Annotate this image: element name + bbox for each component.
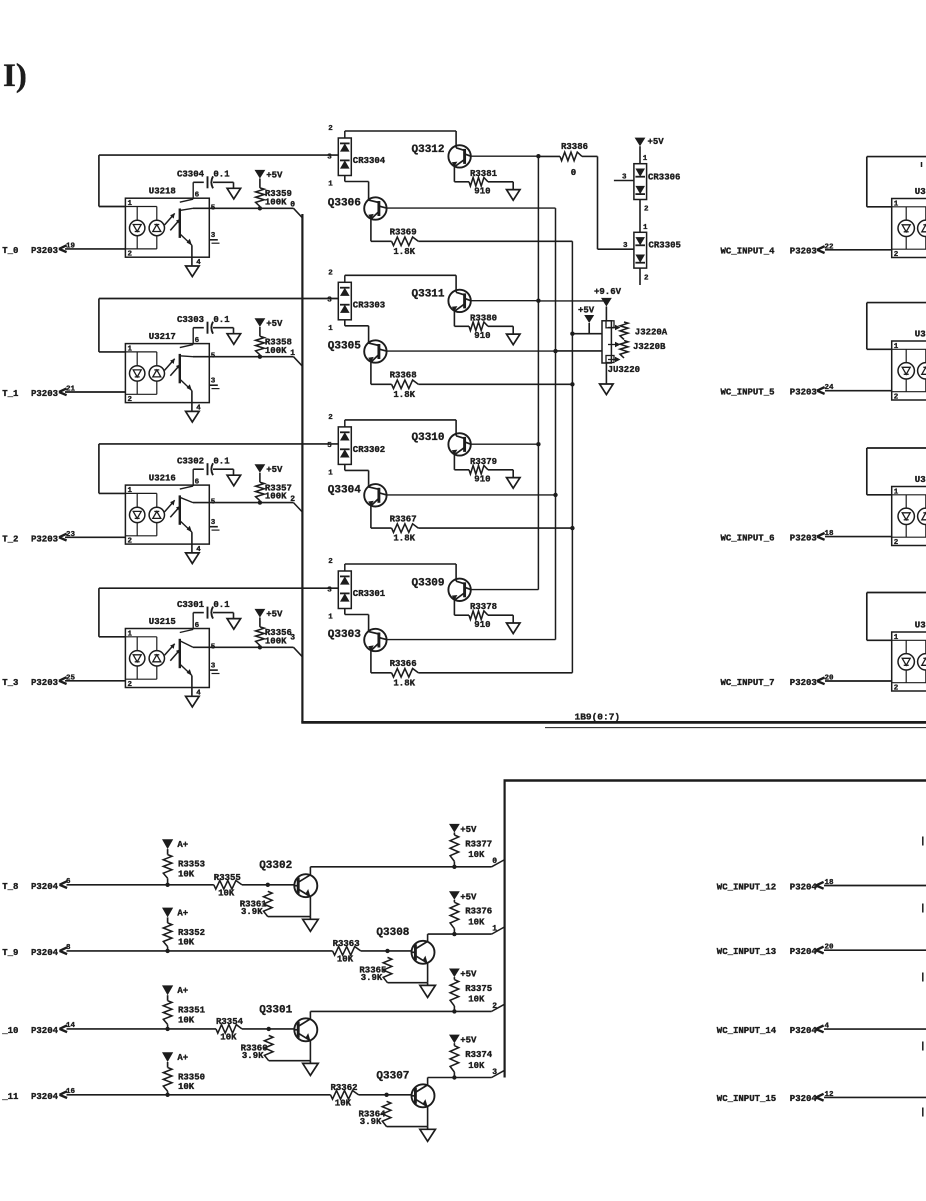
svg-text:2: 2 (328, 558, 333, 566)
svg-text:U3217: U3217 (149, 332, 176, 342)
svg-text:1.8K: 1.8K (393, 534, 415, 544)
svg-text:10K: 10K (178, 1082, 195, 1092)
svg-text:P3204: P3204 (31, 948, 59, 958)
svg-text:P3203: P3203 (31, 534, 58, 544)
svg-text:18: 18 (825, 530, 835, 538)
svg-text:910: 910 (474, 331, 490, 341)
svg-text:4: 4 (196, 259, 201, 267)
svg-text:P3204: P3204 (31, 1092, 59, 1102)
svg-text:10K: 10K (468, 995, 485, 1005)
svg-text:+5V: +5V (460, 970, 477, 980)
svg-text:CR3306: CR3306 (648, 173, 680, 183)
svg-text:Q3301: Q3301 (259, 1004, 292, 1016)
svg-text:+5V: +5V (266, 319, 283, 329)
svg-text:R3378: R3378 (470, 602, 497, 612)
svg-text:C3303: C3303 (177, 315, 204, 325)
svg-text:Q3310: Q3310 (412, 432, 445, 444)
svg-text:3: 3 (623, 242, 628, 250)
svg-text:P3203: P3203 (790, 678, 817, 688)
svg-text:3: 3 (327, 297, 332, 305)
svg-text:U3216: U3216 (149, 474, 176, 484)
svg-text:J3220B: J3220B (633, 342, 666, 352)
svg-text:10K: 10K (218, 889, 235, 899)
svg-text:25: 25 (66, 674, 76, 682)
svg-text:R3379: R3379 (470, 457, 497, 467)
svg-text:R3377: R3377 (465, 839, 492, 849)
svg-text:WC_INPUT_7: WC_INPUT_7 (721, 678, 775, 688)
svg-text:1: 1 (328, 325, 333, 333)
svg-text:1: 1 (328, 469, 333, 477)
svg-text:23: 23 (66, 531, 76, 539)
svg-text:0.1: 0.1 (213, 457, 230, 467)
svg-text:U32: U32 (915, 330, 926, 340)
svg-text:Q3305: Q3305 (328, 341, 361, 353)
svg-text:R3366: R3366 (390, 659, 417, 669)
svg-text:R3380: R3380 (470, 313, 497, 323)
svg-text:WC_INPUT_14: WC_INPUT_14 (717, 1026, 777, 1036)
svg-text:T_3: T_3 (2, 678, 18, 688)
svg-text:T_8: T_8 (2, 882, 18, 892)
svg-text:2: 2 (128, 681, 133, 689)
svg-text:WC_INPUT_6: WC_INPUT_6 (721, 533, 775, 543)
svg-text:6: 6 (195, 622, 200, 630)
svg-text:19: 19 (66, 242, 76, 250)
svg-text:T_1: T_1 (2, 389, 19, 399)
svg-text:14: 14 (66, 1022, 76, 1030)
svg-text:24: 24 (825, 384, 835, 392)
svg-text:P3204: P3204 (790, 947, 818, 957)
svg-text:10K: 10K (178, 1015, 195, 1025)
svg-text:P3204: P3204 (790, 1026, 818, 1036)
svg-text:10K: 10K (178, 869, 195, 879)
svg-text:P3203: P3203 (790, 533, 817, 543)
svg-text:CR3304: CR3304 (353, 156, 386, 166)
svg-text:WC_INPUT_5: WC_INPUT_5 (721, 388, 775, 398)
svg-text:R3386: R3386 (561, 142, 588, 152)
svg-text:P3203: P3203 (31, 678, 58, 688)
svg-text:6: 6 (195, 337, 200, 345)
svg-text:2: 2 (328, 414, 333, 422)
svg-text:10K: 10K (468, 850, 485, 860)
svg-text:910: 910 (474, 475, 490, 485)
svg-text:1: 1 (643, 155, 648, 163)
svg-text:3.9K: 3.9K (361, 973, 383, 983)
svg-text:10K: 10K (220, 1033, 237, 1043)
svg-text:R3362: R3362 (331, 1083, 358, 1093)
svg-text:5: 5 (327, 442, 332, 450)
svg-text:6: 6 (195, 479, 200, 487)
svg-text:0: 0 (492, 857, 497, 866)
svg-text:R3354: R3354 (216, 1017, 244, 1027)
svg-text:P3203: P3203 (790, 388, 817, 398)
svg-text:1.8K: 1.8K (393, 247, 415, 257)
svg-text:A+: A+ (177, 1053, 188, 1063)
svg-text:A+: A+ (177, 908, 188, 918)
svg-text:R3355: R3355 (214, 873, 241, 883)
svg-text:10K: 10K (337, 955, 354, 965)
svg-text:4: 4 (196, 690, 201, 698)
svg-text:CR3301: CR3301 (353, 589, 386, 599)
svg-text:100K: 100K (265, 346, 287, 356)
svg-text:3.9K: 3.9K (360, 1117, 382, 1127)
svg-text:3: 3 (211, 232, 216, 240)
svg-text:2: 2 (894, 685, 899, 693)
svg-text:0.1: 0.1 (213, 315, 230, 325)
svg-text:10K: 10K (468, 1061, 485, 1071)
svg-text:0.1: 0.1 (213, 170, 230, 180)
svg-text:6: 6 (66, 878, 71, 886)
svg-text:Q3304: Q3304 (328, 484, 361, 496)
svg-text:3.9K: 3.9K (242, 1051, 264, 1061)
svg-text:P3203: P3203 (31, 389, 58, 399)
svg-text:+5V: +5V (266, 171, 283, 181)
svg-text:2: 2 (128, 396, 133, 404)
svg-text:U3215: U3215 (149, 617, 176, 627)
svg-text:R3381: R3381 (470, 169, 498, 179)
svg-text:P3204: P3204 (31, 882, 59, 892)
svg-text:C3301: C3301 (177, 600, 205, 610)
svg-text:2: 2 (290, 495, 295, 504)
svg-text:P3203: P3203 (31, 246, 58, 256)
svg-text:20: 20 (825, 944, 835, 952)
svg-text:2: 2 (128, 251, 133, 259)
svg-text:+5V: +5V (460, 1036, 477, 1046)
svg-text:Q3308: Q3308 (376, 927, 409, 939)
svg-text:0: 0 (571, 168, 576, 178)
svg-text:1: 1 (290, 349, 295, 358)
svg-text:2: 2 (128, 538, 133, 546)
svg-text:3: 3 (327, 153, 332, 161)
svg-text:3.9K: 3.9K (241, 907, 263, 917)
svg-text:T_0: T_0 (2, 246, 18, 256)
svg-text:+5V: +5V (648, 137, 665, 147)
svg-text:2: 2 (328, 125, 333, 133)
svg-text:P3204: P3204 (790, 882, 818, 892)
svg-text:R3350: R3350 (178, 1073, 205, 1083)
svg-text:_10: _10 (1, 1026, 18, 1036)
svg-text:Q3303: Q3303 (328, 629, 361, 641)
svg-text:3: 3 (211, 663, 216, 671)
svg-text:R3376: R3376 (465, 907, 492, 917)
svg-text:T_9: T_9 (2, 948, 18, 958)
svg-text:R3367: R3367 (390, 515, 417, 525)
svg-text:18: 18 (825, 879, 835, 887)
svg-text:C3304: C3304 (177, 170, 205, 180)
svg-text:Q3309: Q3309 (412, 577, 445, 589)
svg-text:U32: U32 (915, 475, 926, 485)
svg-text:Q3306: Q3306 (328, 198, 361, 210)
svg-text:WC_INPUT_4: WC_INPUT_4 (721, 247, 776, 257)
svg-text:+5V: +5V (266, 465, 283, 475)
svg-text:A+: A+ (177, 986, 188, 996)
svg-text:2: 2 (894, 394, 899, 402)
svg-text:2: 2 (644, 206, 649, 214)
svg-text:1: 1 (328, 181, 333, 189)
svg-text:2: 2 (894, 251, 899, 259)
svg-text:0: 0 (290, 201, 295, 210)
svg-text:910: 910 (474, 187, 490, 197)
svg-text:2: 2 (644, 275, 649, 283)
svg-text:A+: A+ (177, 840, 188, 850)
svg-text:R3368: R3368 (390, 371, 417, 381)
svg-text:910: 910 (474, 620, 490, 630)
svg-text:R3351: R3351 (178, 1006, 206, 1016)
svg-text:U3218: U3218 (149, 187, 176, 197)
svg-text:_11: _11 (1, 1092, 19, 1102)
svg-text:2: 2 (492, 1002, 497, 1011)
svg-text:R3353: R3353 (178, 860, 205, 870)
svg-text:CR3305: CR3305 (649, 241, 681, 251)
svg-text:R3375: R3375 (465, 984, 492, 994)
svg-text:J3220A: J3220A (635, 327, 668, 337)
svg-text:22: 22 (825, 243, 835, 251)
svg-text:CR3302: CR3302 (353, 445, 385, 455)
svg-text:10K: 10K (335, 1099, 352, 1109)
svg-text:3: 3 (211, 519, 216, 527)
svg-text:1: 1 (492, 925, 497, 934)
svg-text:21: 21 (66, 386, 76, 394)
svg-text:WC_INPUT_13: WC_INPUT_13 (717, 947, 776, 957)
svg-text:P3203: P3203 (790, 247, 817, 257)
svg-text:Q3312: Q3312 (412, 144, 445, 156)
svg-text:+9.6V: +9.6V (594, 287, 622, 297)
svg-text:WC_INPUT_15: WC_INPUT_15 (717, 1094, 776, 1104)
svg-text:T_2: T_2 (2, 534, 18, 544)
svg-text:+5V: +5V (460, 892, 477, 902)
svg-text:12: 12 (825, 1091, 835, 1099)
svg-text:+5V: +5V (266, 610, 283, 620)
svg-text:3: 3 (492, 1068, 497, 1077)
svg-text:P3204: P3204 (31, 1026, 59, 1036)
svg-text:2: 2 (328, 269, 333, 277)
svg-text:R3363: R3363 (333, 939, 360, 949)
svg-text:4: 4 (196, 546, 201, 554)
svg-text:2: 2 (894, 539, 899, 547)
svg-text:U32: U32 (915, 187, 926, 197)
svg-text:U32: U32 (915, 621, 926, 631)
svg-text:CR3303: CR3303 (353, 300, 385, 310)
svg-text:+5V: +5V (578, 306, 595, 316)
svg-text:6: 6 (195, 192, 200, 200)
svg-text:Q3302: Q3302 (259, 860, 292, 872)
svg-text:10K: 10K (468, 917, 485, 927)
svg-text:3: 3 (290, 633, 295, 642)
svg-text:Q3311: Q3311 (412, 288, 445, 300)
svg-text:R3374: R3374 (465, 1050, 493, 1060)
svg-text:Q3307: Q3307 (376, 1070, 409, 1082)
svg-text:8: 8 (66, 944, 71, 952)
svg-text:100K: 100K (265, 636, 287, 646)
svg-text:1: 1 (328, 614, 333, 622)
svg-text:3: 3 (327, 586, 332, 594)
svg-text:16: 16 (66, 1088, 76, 1096)
svg-text:3: 3 (211, 378, 216, 386)
svg-text:I): I) (3, 58, 27, 94)
svg-text:R3369: R3369 (390, 228, 417, 238)
svg-text:1B9(0:7): 1B9(0:7) (575, 712, 621, 723)
svg-text:C3302: C3302 (177, 457, 204, 467)
svg-text:100K: 100K (265, 197, 287, 207)
svg-text:10K: 10K (178, 938, 195, 948)
svg-text:1.8K: 1.8K (393, 678, 415, 688)
svg-text:0.1: 0.1 (213, 600, 230, 610)
svg-text:1: 1 (643, 224, 648, 232)
svg-text:P3204: P3204 (790, 1094, 818, 1104)
svg-text:100K: 100K (265, 492, 287, 502)
svg-text:WC_INPUT_12: WC_INPUT_12 (717, 882, 776, 892)
svg-text:4: 4 (196, 405, 201, 413)
svg-text:1.8K: 1.8K (393, 390, 415, 400)
svg-text:+5V: +5V (460, 825, 477, 835)
svg-text:R3352: R3352 (178, 928, 205, 938)
svg-text:4: 4 (825, 1023, 830, 1031)
svg-text:20: 20 (825, 675, 835, 683)
svg-text:JU3220: JU3220 (608, 365, 640, 375)
